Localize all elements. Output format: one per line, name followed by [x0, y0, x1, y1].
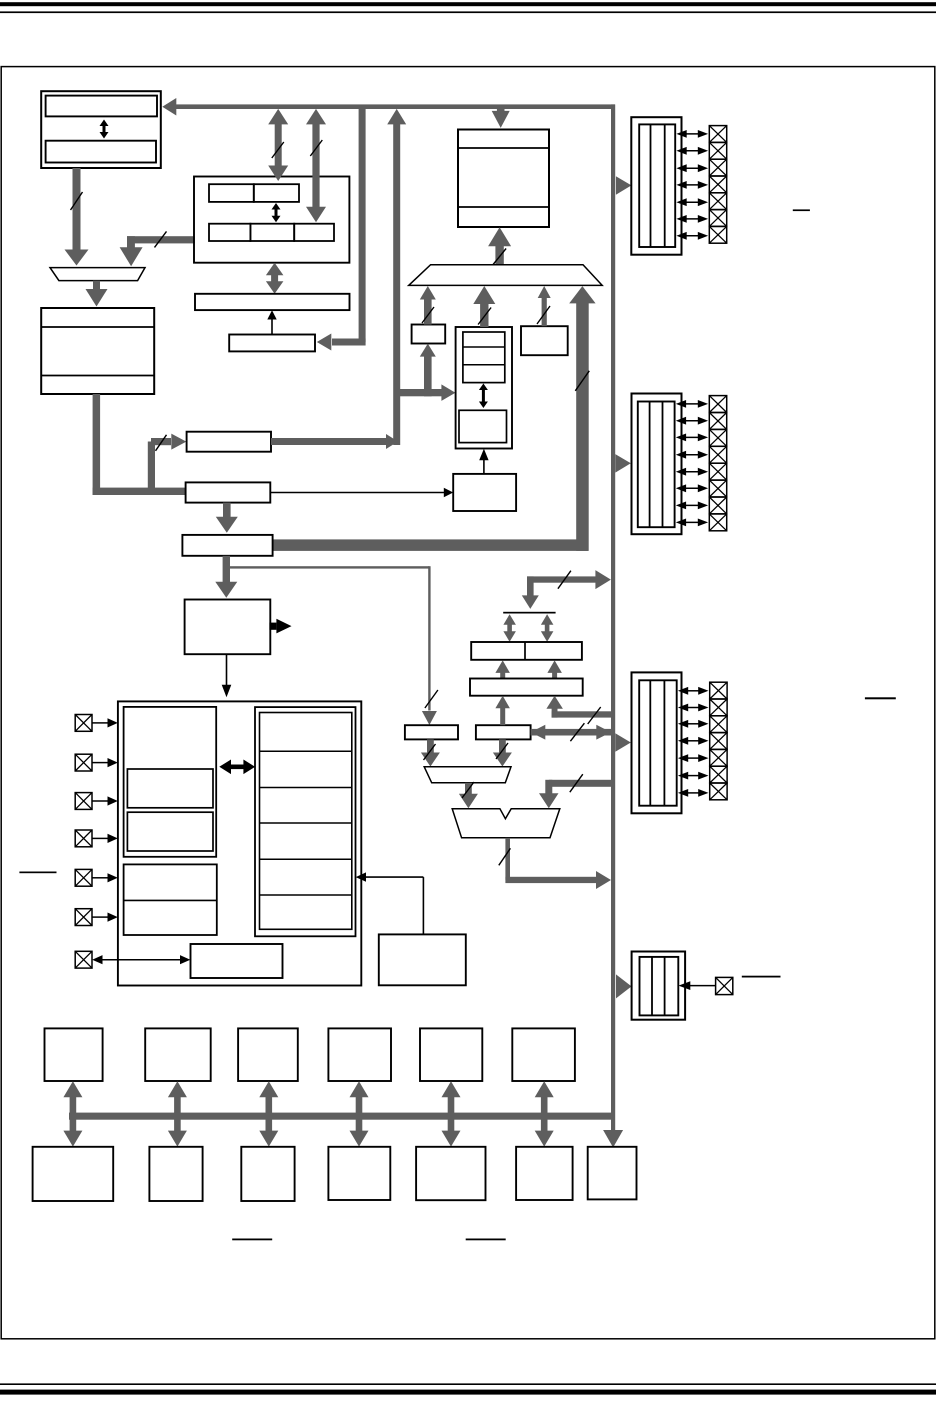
wire: PORTA pin 6 double arrow — [676, 232, 708, 240]
arrowhead: bus into flash program memory box — [162, 98, 176, 116]
wire: PORTA pin 0 double arrow — [676, 130, 708, 138]
wire: direct addr box down to instruction decode — [215, 556, 237, 598]
pin pad: programming pin (bottom left) — [75, 951, 92, 968]
mux: program counter address mux (trapezoid) — [50, 268, 145, 281]
wire: PORTC pin 1 double arrow — [678, 704, 709, 712]
box: reset list block (outer) — [255, 707, 356, 936]
box: STATUS register — [521, 326, 568, 355]
box: peripheral upper 4 — [328, 1028, 391, 1081]
line: RAM file divider lower — [458, 206, 549, 208]
wire: PORTB pin 1 double arrow — [676, 417, 708, 425]
wire: data bus to PCL double arrow (horizontal) — [531, 725, 611, 740]
box: oscillator block (inner left) — [124, 707, 217, 857]
bus width slash on status-mux wire — [537, 306, 550, 324]
wire: PORTA pin 2 double arrow — [676, 164, 708, 172]
bus width slash on ROM latch wire — [156, 435, 167, 451]
wire: PORTB pin 0 double arrow — [676, 400, 708, 408]
bus width slash on mux-RAM wire — [493, 249, 506, 265]
wire: data bus to PC latch (horizontal) — [552, 711, 613, 717]
line: reset row line 5 — [260, 894, 352, 896]
bus width slash on literal-mux wire — [424, 744, 436, 760]
line: reset row line 1 — [260, 750, 352, 752]
arrow: black double vertical in indirect block — [479, 384, 488, 409]
wire: ROM latch to program data line — [271, 438, 392, 445]
wire: PC box to program bus double arrow — [266, 263, 284, 294]
bus width slash on bus-ALU wire — [570, 774, 583, 792]
arrow: fsr box up into indirect block (black) — [479, 449, 488, 474]
wire: PCL up into PC latch — [495, 696, 510, 725]
bus width slash on PC-mux wire — [155, 231, 167, 247]
pin pad: left oscillator/control pin 3 — [75, 793, 92, 810]
box: oscillator sub-box A — [127, 769, 213, 808]
page header thin rule — [0, 11, 936, 13]
box: low-voltage programming — [191, 944, 283, 978]
wire: pin 6 into timing block (black arrow) — [92, 913, 118, 922]
bus width slash on bus-PClatch wire — [588, 707, 601, 724]
wire: FSR to addr mux arrow — [420, 286, 436, 325]
wire: W reg to reset block (black) — [356, 872, 424, 934]
arrow: black double horizontal oscillator to reset block — [219, 760, 255, 775]
wire: program counter to mux (down arrow) — [120, 236, 143, 266]
page footer thin rule — [0, 1383, 936, 1385]
wire: peripheral double arrow 6 — [535, 1081, 554, 1146]
wire: status to addr mux thin arrow — [538, 286, 551, 326]
wire: PORTC pin 2 double arrow — [678, 720, 709, 728]
line: RAM box upper divider — [41, 326, 154, 328]
wire: literal latch down to mux (gray) — [421, 739, 440, 766]
wire: PORTC pin 5 double arrow — [678, 772, 709, 780]
wire: bottom peripheral bus — [69, 1113, 614, 1120]
line: PCLATH node line (black) — [503, 612, 555, 614]
wire: program data vertical line (up to trunk) — [393, 123, 400, 446]
wire: addr latch down to direct addr box — [216, 503, 238, 533]
line: PCLATH divider — [524, 642, 526, 660]
wire: peripheral double arrow 1 — [63, 1081, 82, 1146]
label overline: bottom note 2 — [466, 1239, 506, 1241]
line: indirect inner divider 2 — [463, 364, 505, 366]
wire: horizontal into instruction register — [317, 334, 366, 351]
arrow: instruction decode down to timing block (black) — [222, 654, 232, 697]
arrowhead: trunk into PORTC — [615, 733, 631, 752]
wire: flash to PC-mux gray arrow — [65, 168, 89, 266]
line: reset row line 4 — [260, 858, 352, 860]
wire: PORTA pin 5 double arrow — [676, 215, 708, 223]
wire: PORTB pin 6 double arrow — [676, 502, 708, 510]
wire: thin gray literal wire vertical — [428, 566, 430, 710]
bus width slash on PCLATH-bus wire — [558, 571, 571, 589]
box: MCLR/Vdd block (inner) — [640, 957, 679, 1016]
wire: pin 5 into timing block (black arrow) — [92, 873, 118, 882]
label overline: PORTA area — [793, 209, 810, 211]
box: flash memory inner bottom — [46, 141, 156, 163]
line: RAM file divider upper — [458, 147, 549, 149]
arrowhead: literal wire into small latch — [422, 711, 437, 725]
wire: PORTA pin 4 double arrow — [676, 198, 708, 206]
wire: PC pair up arrow right — [547, 660, 562, 678]
box: FSR reg (right of decode) — [453, 474, 516, 511]
wire: ALU output down — [505, 838, 510, 880]
wire: peripheral double arrow 3 — [259, 1081, 278, 1146]
alu: ALU trapezoid with notch — [452, 809, 560, 838]
arrowhead: direct addr bus into addr mux — [569, 286, 595, 303]
pin pad: left oscillator/control pin 5 — [75, 869, 92, 886]
box: RAM file registers (left memory box) — [41, 308, 154, 394]
wire: trunk to program counter double arrow — [268, 109, 288, 181]
box: peripheral lower 5 — [416, 1147, 485, 1200]
wire: indirect block to addr mux arrow — [473, 286, 495, 327]
bus width slash on indirect-mux wire — [478, 308, 491, 325]
box: PORTB block — [632, 394, 682, 535]
wire: arrow into ROM latch box — [151, 434, 186, 450]
wire: RAM address horizontal bar to addr latch — [93, 488, 187, 495]
bus width slash on bus-PCL wire — [570, 723, 584, 741]
wire: PORTC pin 4 double arrow — [678, 754, 709, 762]
box: RAM file registers (top middle) — [458, 130, 549, 228]
line: reset row line 2 — [260, 787, 352, 789]
box: direct addr register — [182, 535, 272, 556]
wire: data bus branch to ALU right input (down arrow) — [539, 780, 559, 809]
wire: data bus to PC latch (up arrow) — [546, 696, 563, 718]
arrowhead: trunk into MCLR block — [616, 974, 632, 998]
arrowhead: program data line into trunk — [387, 109, 406, 125]
box: peripheral upper 6 — [512, 1028, 575, 1081]
box: stack row cell 3 — [294, 224, 334, 241]
pin pad: left oscillator/control pin 6 — [75, 909, 92, 926]
box: peripheral lower 6 — [516, 1147, 573, 1200]
label overline: OSC pin (left margin) — [19, 872, 56, 874]
wire: programming pin double arrow (black) — [92, 955, 190, 964]
box: program counter row cell 1 — [209, 184, 254, 202]
wire: input mux down to ALU — [459, 783, 478, 809]
box: flash program memory (outer) — [41, 91, 161, 168]
wire: addr latch thin line to fsr box — [270, 488, 453, 497]
wire: trunk to stack double arrow — [306, 109, 326, 222]
pin pad column: PORTA pins — [709, 126, 726, 244]
bus width slash on PCL-mux wire — [496, 743, 508, 759]
page footer thick rule — [0, 1390, 936, 1395]
wire: trunk down-branch to instruction register — [359, 109, 366, 342]
bus width slash on FSR-mux wire — [422, 307, 434, 323]
label overline: PORTB area — [865, 697, 896, 699]
bus width slash on PC double arrow — [272, 142, 284, 158]
wire: PORTB pin 7 double arrow — [676, 519, 708, 527]
line: MCLR inner divider 2 — [664, 957, 666, 1016]
wire: program bus top horizontal trunk — [166, 104, 615, 109]
arrowhead: trunk down into bottom peripheral box — [603, 1130, 623, 1148]
box: peripheral upper 3 — [238, 1028, 298, 1081]
box: reset list block (inner rows) — [260, 713, 352, 930]
box: peripheral upper 5 — [420, 1028, 482, 1081]
wire: mux to RAM address gray arrow — [86, 281, 108, 307]
wire: node to PCLATH double arrow right — [541, 614, 554, 642]
wire: MCLR pin into block (black arrow) — [679, 981, 716, 990]
wire: pin 4 into timing block (black arrow) — [92, 834, 118, 843]
box: peripheral lower 7 — [588, 1147, 637, 1200]
arrowhead: into program data vertical line — [386, 434, 398, 449]
wire: node to PCLATH double arrow left — [503, 614, 516, 642]
mux: RAM address mux (large trapezoid) — [409, 265, 603, 286]
box: ROM latch — [187, 432, 271, 452]
arrowhead: trunk into PORTB — [615, 454, 631, 473]
box: address latch — [186, 482, 271, 502]
box: debugger block — [124, 864, 217, 935]
bus width slash on ALU output — [499, 848, 511, 865]
wire: ALU output right to data bus — [505, 871, 611, 889]
wire: thin gray literal wire horizontal — [227, 566, 429, 568]
box: timing generation outer — [118, 701, 361, 985]
wire: PORTC pin 6 double arrow — [678, 789, 709, 797]
box: peripheral lower 2 — [149, 1147, 202, 1201]
line: RAM box lower divider — [41, 375, 154, 377]
label overline: bottom note 1 — [232, 1239, 272, 1241]
box: PC latch (long) — [470, 679, 583, 696]
box: indirect addr inner bottom — [459, 410, 507, 442]
box: stack row cell 2 — [250, 224, 294, 241]
wire: PORTA pin 3 double arrow — [676, 181, 708, 189]
box: stack row cell 1 — [209, 224, 250, 241]
box: instruction register — [229, 335, 315, 352]
wire: PCLATH branch down arrow — [522, 576, 539, 609]
line: debugger block divider — [124, 899, 217, 901]
wire: pin 3 into timing block (black arrow) — [92, 796, 118, 805]
wire: peripheral double arrow 4 — [350, 1081, 369, 1146]
box: program counter and stack (outer) — [194, 177, 349, 263]
label overline: MCLR — [742, 976, 781, 978]
wire: PC pair up arrow left — [495, 660, 510, 678]
box: peripheral upper 2 — [145, 1028, 211, 1081]
box: literal latch (left small) — [405, 725, 458, 739]
bus width slash on flash-mux wire — [71, 192, 83, 210]
box: peripheral lower 4 — [328, 1147, 390, 1200]
pin pad: left oscillator/control pin 4 — [75, 830, 92, 847]
wire: PORTB pin 4 double arrow — [676, 468, 708, 476]
box: program bus (long horizontal) — [195, 294, 350, 310]
wire: data bus branch to ALU right input (horizontal) — [549, 780, 613, 787]
arrow: instruction register to program bus (black) — [267, 310, 276, 334]
box: peripheral lower 1 — [33, 1147, 114, 1201]
box: flash memory inner top — [46, 96, 157, 117]
wire: addr mux up into RAM file registers — [488, 227, 511, 265]
wire: program counter to mux (horizontal) — [127, 236, 195, 243]
wire: PORTC pin 0 double arrow — [678, 687, 709, 695]
wire: direct address wide bus horizontal — [273, 539, 588, 551]
wire: branch to indirect-address block — [397, 384, 456, 401]
pin pad column: PORTC pins — [710, 682, 727, 800]
wire: trunk down into RAM file registers — [492, 109, 510, 128]
arrow: instruction decode output stub (black) — [269, 619, 291, 634]
pin pad: left oscillator/control pin 2 — [75, 754, 92, 771]
wire: PORTB pin 3 double arrow — [676, 451, 708, 459]
wire: PORTB pin 5 double arrow — [676, 484, 708, 492]
wire: direct address wide bus vertical — [576, 302, 589, 551]
wire: peripheral double arrow 2 — [168, 1081, 187, 1146]
box: PCL latch (middle small) — [476, 725, 531, 739]
wire: riser to ROM latch arrow — [148, 442, 155, 496]
page header thick rule — [0, 2, 936, 6]
pin pad column: PORTB pins — [709, 396, 726, 531]
box: PCLATH / PCH pair — [471, 642, 582, 660]
box: indirect address block (outer tall) — [456, 327, 512, 449]
wire: RAM address vertical bar — [93, 394, 101, 495]
wire: PORTB pin 2 double arrow — [676, 434, 708, 442]
bus width slash on stack double arrow — [310, 140, 322, 156]
wire: junction up into FSR register — [420, 344, 436, 397]
bus width slash on mux-ALU wire — [462, 782, 474, 798]
line: reset row line 3 — [260, 822, 352, 824]
wire: pin 2 into timing block (black arrow) — [92, 758, 118, 767]
box: PORTA block — [631, 117, 681, 255]
line: MCLR inner divider 1 — [651, 957, 653, 1016]
bus width slash on literal wire — [425, 690, 438, 708]
wire: PORTC pin 3 double arrow — [678, 737, 709, 745]
box: FSR register — [412, 325, 446, 344]
wire: peripheral double arrow 5 — [442, 1081, 461, 1146]
box: W register — [379, 934, 466, 985]
arrow: black double vertical PC to stack — [272, 203, 281, 222]
box: indirect addr inner top — [463, 332, 505, 383]
wire: main data bus vertical trunk — [611, 104, 615, 1131]
box: MCLR/Vdd block (outer) — [632, 952, 686, 1020]
arrowhead: trunk into PORTA — [616, 176, 632, 195]
box: peripheral upper 1 — [45, 1028, 103, 1081]
pin pad: left oscillator/control pin 1 — [75, 715, 92, 732]
wire: pin 1 into timing block (black arrow) — [92, 718, 118, 727]
pin pad: MCLR pin — [716, 977, 733, 994]
box: oscillator sub-box B — [127, 812, 213, 851]
line: indirect inner divider 1 — [463, 346, 505, 348]
arrow: black double vertical between flash sub-boxes — [100, 120, 109, 139]
bus width slash on direct addr bus — [575, 371, 589, 391]
box: PORTC block — [632, 672, 682, 813]
box: program counter row cell 2 — [254, 184, 299, 202]
mux: ALU input mux (small trapezoid) — [424, 767, 511, 783]
wire: PCLATH branch to data bus (horizontal) — [527, 570, 611, 589]
box: instruction decode and control — [185, 600, 271, 655]
box: peripheral lower 3 — [241, 1147, 294, 1201]
wire: PCL latch down to mux (gray) — [493, 739, 512, 766]
wire: PORTA pin 1 double arrow — [676, 147, 708, 155]
